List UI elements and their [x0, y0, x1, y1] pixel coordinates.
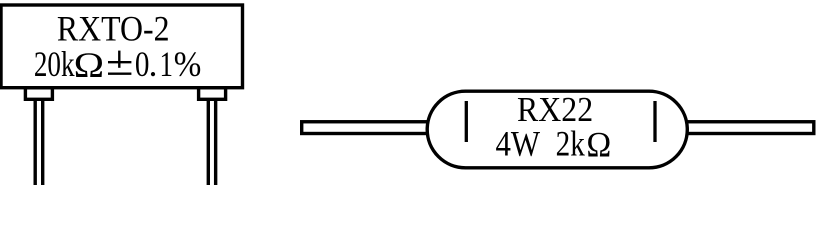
RXTO-2 type label: [57, 10, 170, 49]
left pin collar: [25, 88, 52, 100]
svg-text:RX22: RX22: [517, 90, 593, 129]
svg-text:.: .: [149, 44, 158, 84]
right pin collar: [199, 88, 226, 100]
right end-cap mark: [653, 101, 656, 142]
RXTO-2 value label 20kΩ±0.1%: [34, 44, 202, 85]
RX22 type label: [517, 90, 593, 129]
right lead wire of power resistor: [680, 122, 814, 134]
svg-text:Ω: Ω: [586, 124, 611, 164]
svg-text:%: %: [174, 45, 202, 85]
left lead wire of power resistor: [302, 122, 437, 134]
svg-text:20k: 20k: [34, 44, 75, 84]
right lead wire of precision resistor: [208, 98, 215, 185]
svg-text:1: 1: [160, 44, 173, 84]
left lead wire of precision resistor: [35, 98, 43, 185]
svg-text:Ω: Ω: [74, 46, 104, 85]
svg-text:0: 0: [135, 45, 150, 85]
precision resistor RXTO-2 body: [1, 5, 243, 88]
left end-cap mark: [465, 101, 468, 142]
svg-text:4W: 4W: [495, 124, 540, 164]
svg-text:RXTO-2: RXTO-2: [57, 10, 170, 49]
RX22 value label 4W 2kΩ: [495, 124, 611, 164]
power resistor RX22 body: [427, 91, 687, 168]
svg-text:2k: 2k: [556, 125, 586, 165]
